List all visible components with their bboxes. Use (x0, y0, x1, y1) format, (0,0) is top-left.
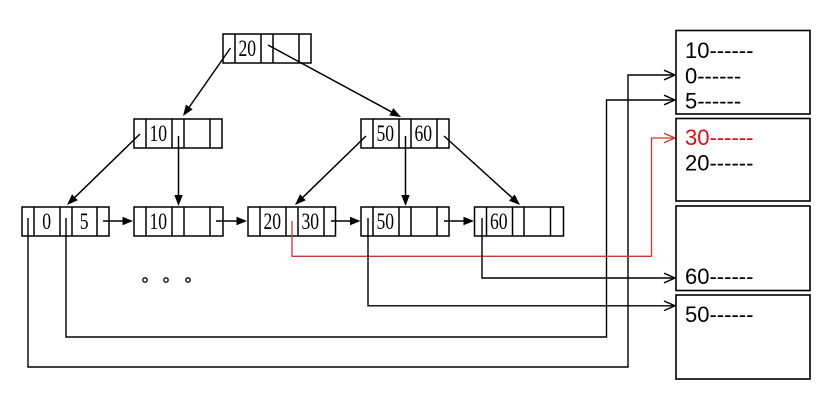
svg-text:20: 20 (239, 36, 257, 62)
ellipsis dots (omitted pointers) (143, 278, 190, 282)
data block2 (676, 119, 810, 202)
svg-text:0: 0 (42, 209, 51, 235)
svg-text:50------: 50------ (685, 302, 753, 327)
arrow n10 ptr2 to leaf2 (174, 136, 182, 206)
node root (key 20) (223, 34, 311, 63)
svg-text:20------: 20------ (685, 151, 753, 176)
wire leaf3 ptr2 to record 30 (block2, red) (292, 133, 675, 256)
arrow n5060 ptr1 to leaf3 (295, 136, 366, 205)
arrow root ptr2 to n5060 (268, 45, 401, 117)
arrow leaf2 next to leaf3 (216, 217, 247, 225)
svg-text:20: 20 (264, 209, 282, 235)
leaf1 (keys 0 5) (22, 207, 109, 236)
leaf5 (key 60) (475, 207, 564, 236)
data block1 (676, 31, 810, 115)
wire leaf4 ptr1 to record 50 (block4) (368, 218, 675, 311)
data block4 (676, 295, 810, 379)
svg-text:30: 30 (302, 209, 320, 235)
svg-text:0------: 0------ (685, 64, 741, 89)
arrow leaf1 next to leaf2 (103, 217, 133, 225)
svg-text:60: 60 (415, 121, 433, 147)
leaf4 (key 50) (361, 207, 449, 236)
arrow n10 ptr1 to leaf1 (67, 134, 140, 205)
leaf3 (keys 20 30) (248, 207, 336, 236)
svg-text:30------: 30------ (685, 125, 753, 150)
arrow leaf4 next to leaf5 (444, 217, 474, 225)
node n10 (key 10, internal) (134, 119, 222, 148)
svg-text:50: 50 (377, 121, 395, 147)
svg-text:50: 50 (377, 209, 395, 235)
svg-text:60: 60 (490, 209, 508, 235)
svg-text:10------: 10------ (685, 38, 753, 63)
node n5060 (keys 50 60, internal) (361, 119, 449, 148)
leaf2 (key 10) (134, 207, 223, 236)
wire leaf1 ptr2 to record 5 (block1) (66, 95, 675, 337)
svg-text:10: 10 (150, 209, 168, 235)
svg-text:5: 5 (80, 209, 89, 235)
arrow root ptr1 to n10 (183, 48, 231, 116)
svg-text:5------: 5------ (685, 89, 741, 114)
svg-text:10: 10 (150, 121, 168, 147)
arrow n5060 ptr2 to leaf4 (401, 136, 409, 206)
arrow n5060 ptr3 to leaf5 (444, 136, 520, 205)
svg-text:60------: 60------ (685, 264, 753, 289)
data block3 (676, 206, 810, 291)
arrow leaf3 next to leaf4 (331, 217, 361, 225)
wire leaf5 ptr1 to record 60 (block3) (482, 218, 675, 283)
wire leaf1 ptr1 to record 0 (block1) (28, 70, 675, 367)
